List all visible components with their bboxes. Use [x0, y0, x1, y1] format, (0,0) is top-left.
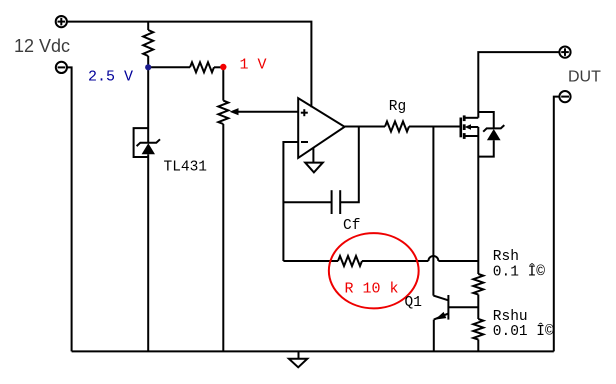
wire R1 to 2.5V node — [147, 56, 149, 67]
TL431 zener anode triangle — [142, 143, 155, 154]
svg-text:Rsh: Rsh — [493, 249, 519, 265]
resistor Rsh — [473, 274, 483, 295]
highlight ellipse around R 10 k — [329, 233, 419, 308]
wire resistor to 1V node — [214, 66, 223, 68]
wire R 10k to hop — [362, 260, 428, 262]
op-amp ground stub — [312, 148, 314, 163]
MOSFET body stub with arrow — [465, 124, 479, 130]
potentiometer body — [218, 101, 228, 124]
svg-text:Cf: Cf — [343, 218, 360, 234]
wire Rg to MOSFET gate — [409, 126, 460, 128]
terminal - (12V supply) — [56, 62, 67, 73]
wire top rail from +12V terminal to op-amp supply drop — [67, 22, 312, 108]
wire MOSFET drain up to DUT+ — [478, 52, 559, 118]
MOSFET channel segments — [463, 115, 466, 138]
wire hop over vertical — [428, 256, 438, 261]
TL431 box — [134, 128, 149, 157]
wire MOSFET source down through Rsh node — [477, 127, 479, 274]
MOSFET drain stub — [464, 117, 478, 119]
wire gate junction down to Q1 collector — [432, 127, 434, 296]
Q1 base wire to Rsh/Rshu junction — [448, 306, 478, 308]
svg-text:12 Vdc: 12 Vdc — [14, 36, 70, 56]
wire Rshu to ground rail — [477, 340, 479, 352]
body diode zener bar — [483, 125, 504, 132]
wire potentiometer bottom to ground rail — [222, 124, 224, 351]
resistor (2.5V to 1V node) — [190, 62, 214, 72]
svg-text:DUT: DUT — [568, 69, 601, 86]
wire 2.5V node down to TL431 — [147, 67, 149, 142]
capacitor Cf plates — [332, 190, 341, 214]
node 1V dot — [220, 64, 226, 70]
wire 2.5V node to horizontal resistor — [148, 66, 190, 68]
wire DUT- down to ground rail — [554, 97, 560, 352]
svg-text:TL431: TL431 — [164, 160, 208, 176]
wire 1V node down to potentiometer — [222, 67, 224, 100]
svg-text:0.01 Î©: 0.01 Î© — [493, 322, 554, 340]
svg-text:2.5 V: 2.5 V — [88, 69, 133, 86]
node 2.5V dot — [145, 64, 151, 70]
svg-text:Rg: Rg — [389, 99, 406, 115]
wire 12V minus to bottom rail — [67, 67, 72, 351]
Q1 collector diagonal — [433, 296, 448, 301]
body diode triangle — [487, 129, 501, 140]
svg-text:Rshu: Rshu — [493, 309, 528, 325]
body diode branch bottom — [478, 140, 493, 156]
op-amp - input marker — [301, 141, 308, 143]
terminal - (DUT) — [559, 91, 570, 102]
wire op-amp output — [345, 126, 385, 128]
MOSFET source stub — [464, 135, 478, 137]
wire hop to Rsh top junction — [438, 260, 478, 262]
resistor R 10 k — [338, 256, 362, 266]
op-amp U1 triangle — [298, 98, 344, 158]
wire Rsh to base junction — [477, 295, 479, 320]
potentiometer wiper arrow and wire to op-amp + input — [230, 108, 299, 115]
MOSFET gate bar — [459, 118, 462, 138]
wire output junction down to capacitor — [340, 127, 359, 203]
wire feedback node to R 10k — [283, 260, 338, 262]
resistor R1 (upper divider) — [143, 30, 153, 56]
wire TL431 to ground rail — [147, 154, 149, 351]
TL431 zener cathode bar — [137, 139, 160, 146]
Q1 emitter diagonal with arrow — [434, 312, 448, 320]
svg-text:1 V: 1 V — [240, 57, 267, 74]
ground (op-amp) — [305, 163, 323, 173]
resistor Rg — [385, 122, 409, 132]
terminal + (12V supply) — [56, 16, 67, 27]
terminal + (DUT) — [559, 47, 570, 58]
wire feedback node to capacitor left plate — [283, 201, 331, 203]
wire op-amp - input feedback — [283, 142, 298, 261]
wire Q1 emitter to ground rail — [433, 320, 435, 352]
transistor Q1 base bar — [447, 295, 449, 320]
ground (bottom rail) — [289, 351, 307, 367]
resistor Rshu — [473, 319, 483, 340]
svg-text:R 10 k: R 10 k — [345, 281, 399, 298]
op-amp + input marker — [301, 109, 308, 116]
body diode branch top — [478, 112, 493, 128]
wire bottom ground rail — [72, 350, 554, 352]
wire top rail to resistor R1 — [147, 22, 149, 30]
svg-text:Q1: Q1 — [405, 295, 422, 311]
svg-text:0.1 Î©: 0.1 Î© — [493, 263, 546, 281]
